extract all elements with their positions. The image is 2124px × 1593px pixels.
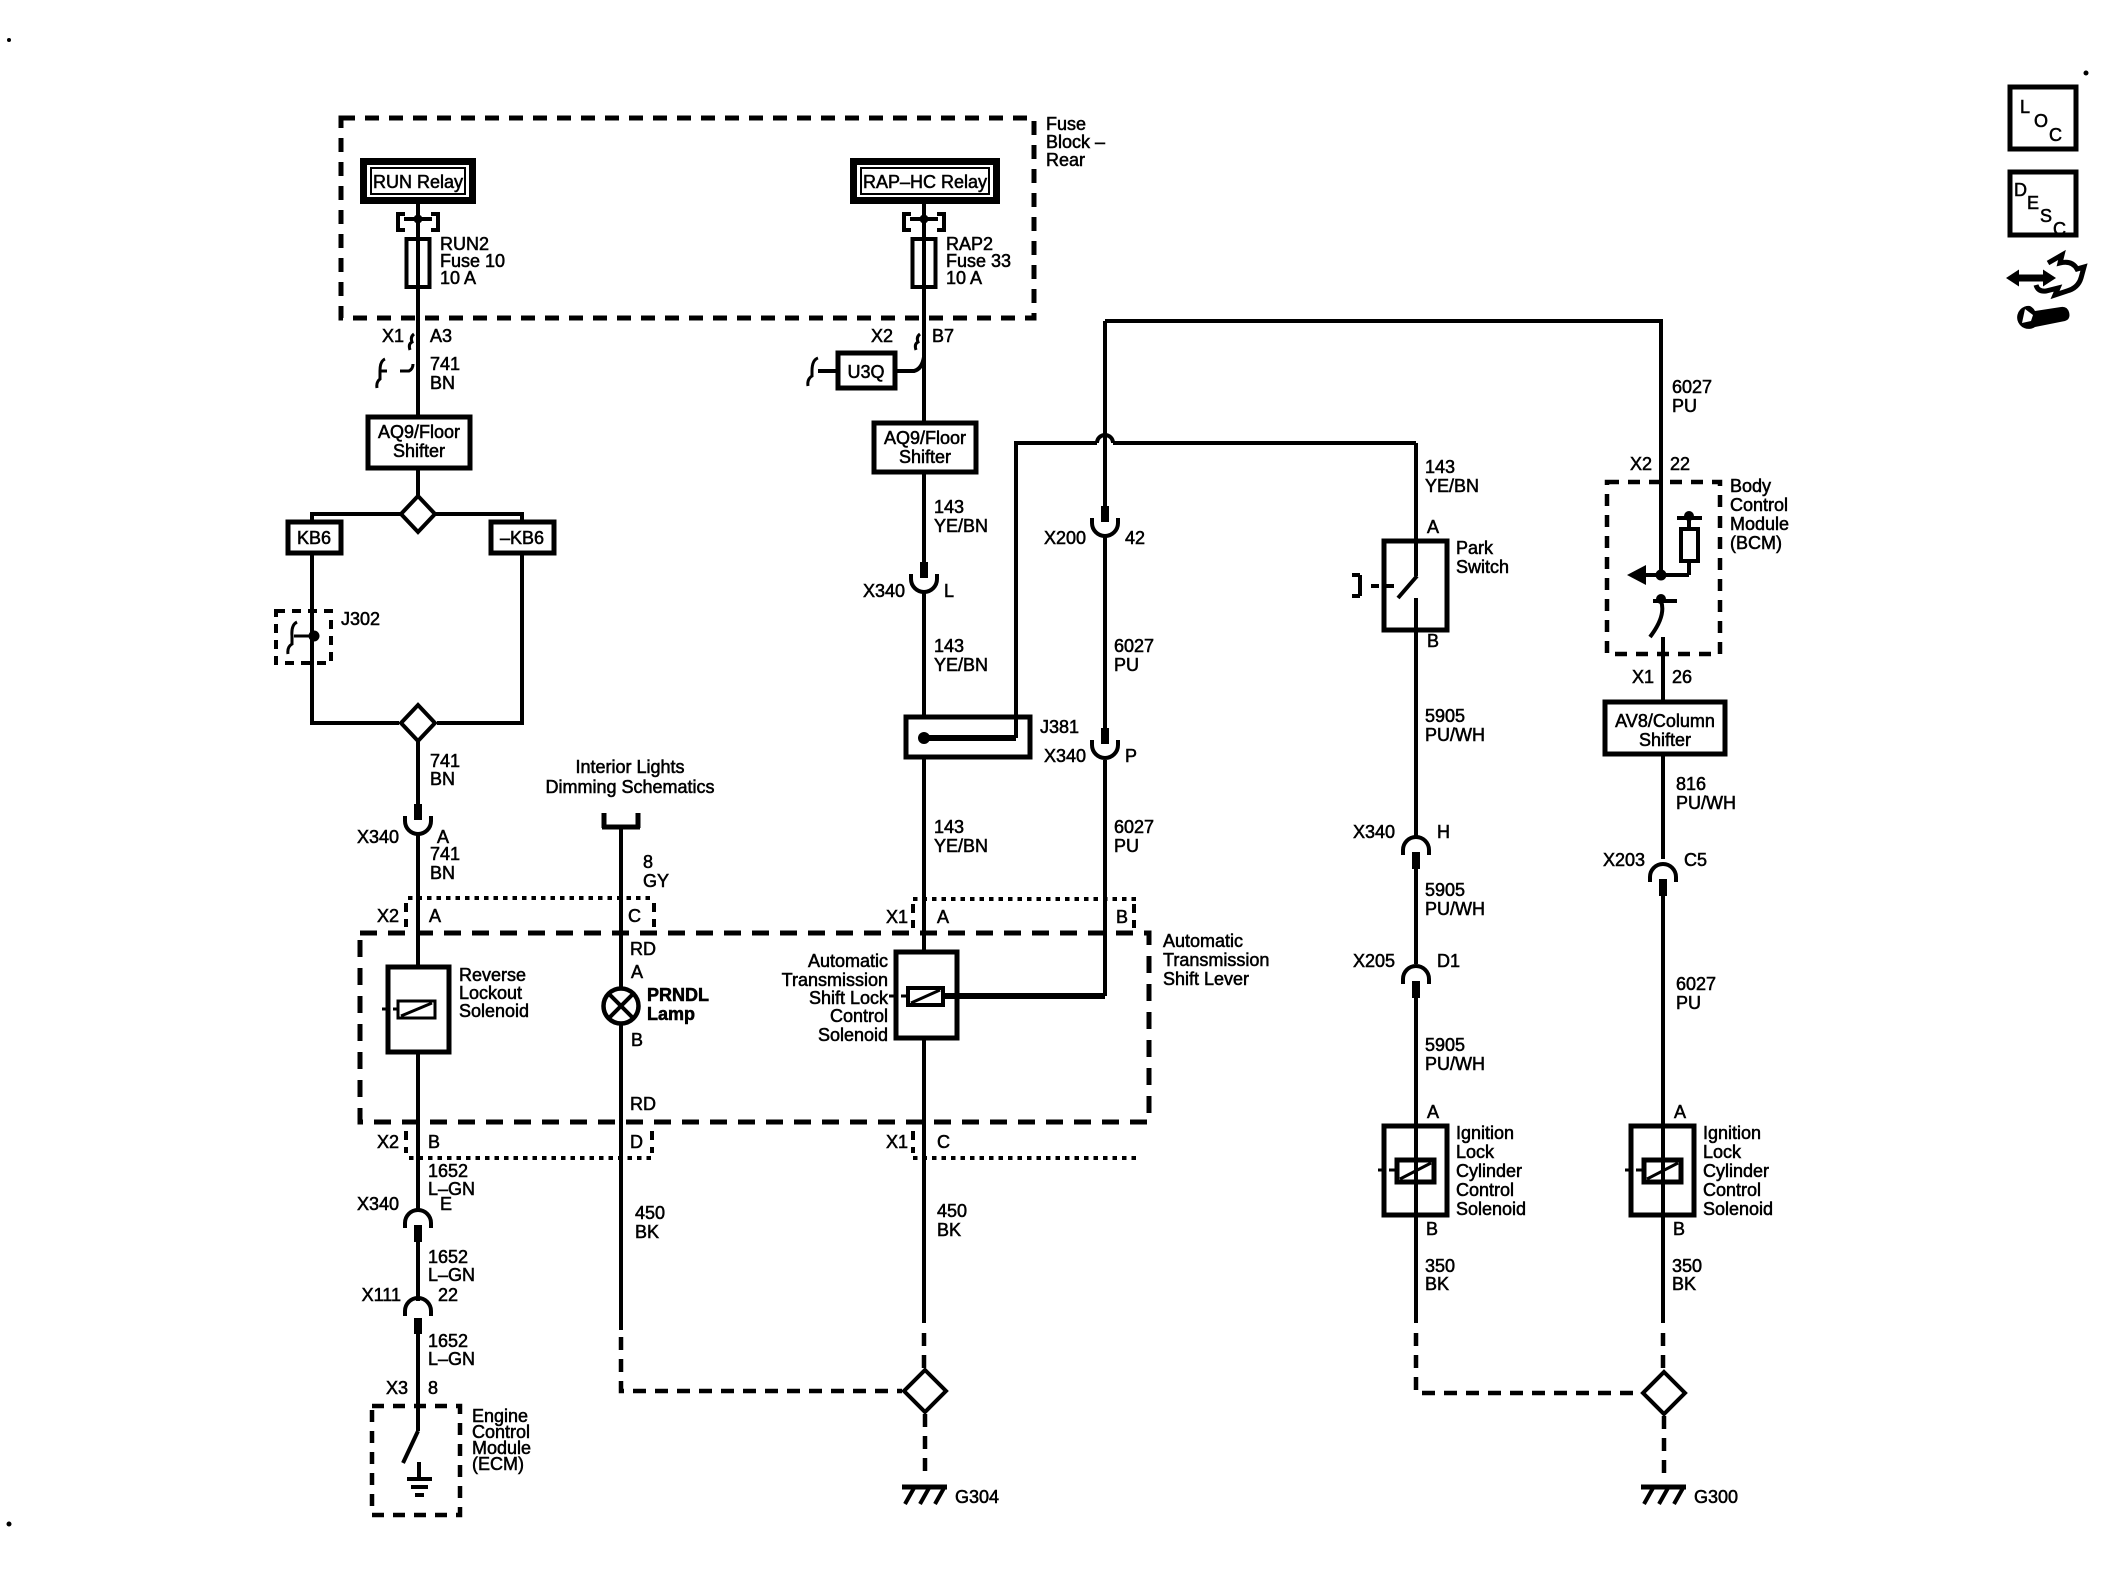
wire park feed down	[1414, 443, 1418, 541]
inline connector X340 E	[357, 1194, 452, 1242]
label Automatic Transmission Shift Lever	[1163, 931, 1269, 989]
wire label 450 BK	[937, 1201, 967, 1240]
connector block AQ9/Floor Shifter (left)	[368, 417, 470, 468]
svg-text:X2: X2	[1630, 454, 1652, 474]
dashed wire to G304 diamond	[621, 1337, 902, 1391]
connector X2 B7 labels	[871, 326, 954, 350]
svg-text:YE/BN: YE/BN	[934, 516, 988, 536]
wire label 6027 PU (top right)	[1672, 377, 1712, 416]
svg-text:350: 350	[1425, 1256, 1455, 1276]
wire label 1652 L-GN	[428, 1161, 475, 1199]
wire label 143 YE/BN	[934, 497, 988, 536]
svg-text:BN: BN	[430, 373, 455, 393]
svg-text:BN: BN	[430, 769, 455, 789]
svg-text:D1: D1	[1437, 951, 1460, 971]
svg-text:42: 42	[1125, 528, 1145, 548]
svg-text:C: C	[2053, 219, 2066, 239]
svg-text:X1: X1	[886, 907, 908, 927]
svg-text:Control: Control	[830, 1006, 888, 1026]
svg-text:816: 816	[1676, 774, 1706, 794]
svg-text:L–GN: L–GN	[428, 1349, 475, 1369]
svg-text:Shift Lever: Shift Lever	[1163, 969, 1249, 989]
svg-text:741: 741	[430, 751, 460, 771]
label Engine Control Module (ECM)	[472, 1406, 531, 1474]
automatic transmission shift lever dashed boundary	[360, 933, 1149, 1122]
svg-text:E: E	[2027, 193, 2039, 213]
wire label 350 BK	[1672, 1256, 1702, 1294]
wire X340E to X111	[416, 1242, 420, 1301]
svg-text:Lock: Lock	[1456, 1142, 1495, 1162]
wire label 1652 L-GN	[428, 1331, 475, 1369]
svg-text:B: B	[1116, 907, 1128, 927]
svg-text:Cylinder: Cylinder	[1703, 1161, 1769, 1181]
wire label 143 YE/BN (park feed)	[1425, 457, 1479, 496]
svg-text:Rear: Rear	[1046, 150, 1085, 170]
svg-text:PU/WH: PU/WH	[1676, 793, 1736, 813]
svg-text:A: A	[937, 907, 949, 927]
svg-text:Fuse: Fuse	[1046, 114, 1086, 134]
wire label 816 PU/WH	[1676, 774, 1736, 813]
reverse lockout solenoid	[382, 965, 529, 1052]
wire X340L to J381	[922, 592, 926, 717]
lamp PRNDL	[604, 985, 710, 1024]
tiny mark bottom left	[7, 1522, 12, 1527]
svg-text:6027: 6027	[1114, 636, 1154, 656]
BCM internal resistor and driver	[1627, 511, 1702, 585]
svg-text:PU: PU	[1676, 993, 1701, 1013]
wire KB6 down through J302	[312, 553, 399, 723]
wire label 5905 PU/WH	[1425, 880, 1485, 919]
svg-text:Control: Control	[1730, 495, 1788, 515]
svg-text:X1: X1	[886, 1132, 908, 1152]
connector X1 band C row	[886, 1131, 1136, 1158]
connector block AQ9/Floor Shifter (middle)	[874, 423, 976, 472]
LOC reference box	[2010, 87, 2076, 149]
svg-text:143: 143	[1425, 457, 1455, 477]
svg-text:Solenoid: Solenoid	[1456, 1199, 1526, 1219]
svg-text:X203: X203	[1603, 850, 1645, 870]
wire 6027 PU feed from top corner	[1103, 321, 1107, 506]
svg-text:1652: 1652	[428, 1331, 468, 1351]
wire X200 to X340 P	[1103, 536, 1107, 730]
svg-text:PU: PU	[1114, 836, 1139, 856]
ignition lock cylinder control solenoid (right)	[1625, 1123, 1773, 1219]
svg-text:Ignition: Ignition	[1703, 1123, 1761, 1143]
wire RAP relay to AQ9	[922, 202, 926, 423]
svg-text:PU: PU	[1672, 396, 1697, 416]
ignition lock cylinder control solenoid (left)	[1378, 1123, 1526, 1219]
connector X1 A3 labels	[382, 326, 452, 350]
inline connector X340 A	[357, 804, 449, 847]
wire AV8 down to X203	[1661, 754, 1665, 859]
svg-text:Transmission: Transmission	[1163, 950, 1269, 970]
svg-text:450: 450	[937, 1201, 967, 1221]
wire label 8 GY	[643, 852, 669, 891]
svg-text:Shifter: Shifter	[899, 447, 951, 467]
svg-text:X3: X3	[386, 1378, 408, 1398]
wire J381 to shift lock solenoid	[922, 757, 926, 952]
svg-text:AQ9/Floor: AQ9/Floor	[378, 422, 460, 442]
svg-text:C: C	[937, 1132, 950, 1152]
svg-text:BK: BK	[1672, 1274, 1696, 1294]
svg-text:B: B	[1427, 631, 1439, 651]
svg-text:5905: 5905	[1425, 1035, 1465, 1055]
svg-text:143: 143	[934, 636, 964, 656]
relay K RAP-HC Relay box	[854, 162, 997, 201]
svg-text:L: L	[944, 581, 954, 601]
svg-text:1652: 1652	[428, 1247, 468, 1267]
connector X3 8 labels	[386, 1378, 438, 1398]
svg-text:6027: 6027	[1672, 377, 1712, 397]
wire label 143 YE/BN	[934, 636, 988, 675]
svg-text:Control: Control	[1456, 1180, 1514, 1200]
wire PRNDL lamp circuit	[619, 828, 623, 988]
svg-text:X1: X1	[382, 326, 404, 346]
svg-text:A3: A3	[430, 326, 452, 346]
svg-text:Control: Control	[1703, 1180, 1761, 1200]
wire label 6027 PU	[1114, 817, 1154, 856]
splice J302 dashed box	[276, 609, 380, 663]
dashed wire diamond to ground	[1662, 1416, 1667, 1477]
wire RUN relay to AQ9	[416, 202, 420, 417]
wire X111 to ECM	[416, 1332, 420, 1431]
svg-text:6027: 6027	[1676, 974, 1716, 994]
svg-text:BN: BN	[430, 863, 455, 883]
svg-text:S: S	[2040, 206, 2052, 226]
svg-text:PU: PU	[1114, 655, 1139, 675]
wire solenoid down	[1414, 1215, 1418, 1323]
svg-text:AV8/Column: AV8/Column	[1615, 711, 1715, 731]
svg-text:–KB6: –KB6	[500, 528, 544, 548]
junction block J381	[906, 717, 1079, 757]
svg-text:P: P	[1125, 746, 1137, 766]
svg-text:Module: Module	[1730, 514, 1789, 534]
connector X1 band A B row	[886, 899, 1136, 928]
wire label 1652 L-GN	[428, 1247, 475, 1285]
svg-text:PU/WH: PU/WH	[1425, 1054, 1485, 1074]
svg-text:X340: X340	[357, 827, 399, 847]
svg-text:C: C	[628, 906, 641, 926]
wire label 350 BK	[1425, 1256, 1455, 1294]
wire X205 to ignition solenoid	[1414, 998, 1418, 1126]
svg-text:RD: RD	[630, 939, 656, 959]
wire solenoid to riser	[941, 993, 1105, 999]
wire label 5905 PU/WH	[1425, 1035, 1485, 1074]
svg-text:741: 741	[430, 354, 460, 374]
svg-text:BK: BK	[1425, 1274, 1449, 1294]
svg-text:450: 450	[635, 1203, 665, 1223]
body control module dashed box	[1607, 482, 1720, 654]
inline connector X340 H	[1353, 822, 1450, 869]
svg-text:X340: X340	[1044, 746, 1086, 766]
inline connector X205 D1	[1353, 951, 1460, 998]
svg-text:Cylinder: Cylinder	[1456, 1161, 1522, 1181]
connector bracket under RUN relay	[398, 214, 438, 230]
ground G300	[1641, 1487, 1738, 1507]
fuse block - rear dashed boundary	[341, 118, 1034, 318]
svg-text:B: B	[1426, 1219, 1438, 1239]
svg-text:L: L	[2020, 97, 2030, 117]
inline connector X340 P	[1044, 728, 1137, 766]
svg-text:X2: X2	[377, 1132, 399, 1152]
svg-text:Body: Body	[1730, 476, 1771, 496]
svg-text:C5: C5	[1684, 850, 1707, 870]
wire X340H to X205	[1414, 869, 1418, 964]
svg-text:Interior Lights: Interior Lights	[575, 757, 684, 777]
wire ring left branch to KB6	[312, 514, 401, 522]
inline connector X340 L	[863, 562, 954, 601]
svg-text:Lamp: Lamp	[647, 1004, 695, 1024]
svg-text:Automatic: Automatic	[808, 951, 888, 971]
svg-text:1652: 1652	[428, 1161, 468, 1181]
tiny mark top left	[7, 38, 11, 42]
splice diamond G300	[1643, 1372, 1685, 1414]
svg-text:B: B	[1673, 1219, 1685, 1239]
svg-text:YE/BN: YE/BN	[1425, 476, 1479, 496]
svg-text:O: O	[2034, 111, 2048, 131]
dashed wire to G300	[1416, 1333, 1642, 1393]
park switch	[1352, 538, 1509, 630]
svg-text:6027: 6027	[1114, 817, 1154, 837]
interior lights dimming schematics reference	[545, 757, 714, 828]
wire label 6027 PU	[1114, 636, 1154, 675]
svg-text:Lock: Lock	[1703, 1142, 1742, 1162]
svg-text:Park: Park	[1456, 538, 1494, 558]
svg-text:10 A: 10 A	[946, 268, 982, 288]
relay K RUN Relay box	[364, 162, 473, 201]
wire park switch to X340 H	[1414, 630, 1418, 837]
svg-text:143: 143	[934, 817, 964, 837]
svg-text:YE/BN: YE/BN	[934, 655, 988, 675]
wire J381 riser to park switch feed	[1016, 435, 1416, 738]
svg-text:(ECM): (ECM)	[472, 1454, 524, 1474]
svg-text:X200: X200	[1044, 528, 1086, 548]
svg-text:22: 22	[438, 1285, 458, 1305]
svg-text:A: A	[1674, 1102, 1686, 1122]
svg-text:G300: G300	[1694, 1487, 1738, 1507]
wire ring right branch to -KB6	[435, 514, 522, 522]
DESC reference box	[2010, 172, 2076, 239]
wire X203 to ignition solenoid right	[1661, 896, 1665, 1126]
svg-text:J302: J302	[341, 609, 380, 629]
svg-text:A: A	[1427, 1102, 1439, 1122]
svg-text:PRNDL: PRNDL	[647, 985, 709, 1005]
svg-text:U3Q: U3Q	[847, 362, 884, 382]
wire solenoid down to X340 E	[416, 1052, 420, 1210]
inline connector X200 42	[1044, 506, 1145, 548]
svg-text:5905: 5905	[1425, 880, 1465, 900]
svg-text:RD: RD	[630, 1094, 656, 1114]
svg-text:X2: X2	[377, 906, 399, 926]
svg-text:Solenoid: Solenoid	[459, 1001, 529, 1021]
wire -KB6 down	[437, 553, 522, 723]
svg-text:Reverse: Reverse	[459, 965, 526, 985]
svg-text:Shifter: Shifter	[393, 441, 445, 461]
svg-text:Solenoid: Solenoid	[1703, 1199, 1773, 1219]
svg-text:GY: GY	[643, 871, 669, 891]
wire top feed 6027 PU horizontal	[1105, 321, 1661, 575]
splice diamond G304	[904, 1370, 946, 1412]
dashed wire to G304	[922, 1333, 927, 1368]
wire label 450 BK	[635, 1203, 665, 1242]
svg-text:143: 143	[934, 497, 964, 517]
connector X2 band A C row	[377, 898, 654, 927]
wire diamond to X340 A	[416, 741, 420, 806]
svg-text:5905: 5905	[1425, 706, 1465, 726]
svg-text:YE/BN: YE/BN	[934, 836, 988, 856]
svg-text:X205: X205	[1353, 951, 1395, 971]
svg-text:Shift Lock: Shift Lock	[809, 988, 889, 1008]
svg-text:A: A	[631, 962, 643, 982]
ground G304	[902, 1487, 999, 1507]
inline connector X203 C5	[1603, 850, 1707, 896]
svg-text:L–GN: L–GN	[428, 1265, 475, 1285]
dashed wire diamond to ground	[923, 1414, 928, 1477]
svg-text:D: D	[2014, 180, 2027, 200]
dashed wire to G300 diamond	[1661, 1333, 1666, 1370]
svg-text:350: 350	[1672, 1256, 1702, 1276]
svg-text:8: 8	[643, 852, 653, 872]
connector X1 26 labels (BCM)	[1632, 667, 1692, 687]
svg-text:B7: B7	[932, 326, 954, 346]
svg-text:E: E	[440, 1194, 452, 1214]
svg-text:X340: X340	[357, 1194, 399, 1214]
ECM internal ground	[407, 1462, 432, 1495]
svg-text:Dimming Schematics: Dimming Schematics	[545, 777, 714, 797]
splice diamond upper	[401, 496, 435, 532]
wire X340P into shift lever assembly	[1103, 760, 1107, 996]
svg-text:X340: X340	[1353, 822, 1395, 842]
wiring icon arrows and wrench	[2006, 255, 2084, 329]
automatic transmission shift lock control solenoid	[782, 951, 957, 1045]
ECM internal switch blade	[403, 1431, 418, 1463]
svg-text:X2: X2	[871, 326, 893, 346]
option box -KB6	[491, 522, 554, 553]
wire X340A to solenoid	[416, 834, 420, 967]
svg-text:Solenoid: Solenoid	[818, 1025, 888, 1045]
wire label 5905 PU/WH	[1425, 706, 1485, 745]
svg-text:RAP–HC Relay: RAP–HC Relay	[863, 172, 987, 192]
svg-text:C: C	[2049, 125, 2062, 145]
option box KB6	[288, 522, 341, 553]
connector X2 22 labels (BCM)	[1630, 454, 1690, 474]
svg-text:(BCM): (BCM)	[1730, 533, 1782, 553]
connector bracket under RAP relay	[904, 214, 944, 230]
svg-text:X111: X111	[362, 1285, 401, 1305]
label Body Control Module (BCM)	[1730, 476, 1789, 553]
svg-text:J381: J381	[1040, 717, 1079, 737]
wire label 741 BN	[430, 844, 460, 883]
svg-text:KB6: KB6	[297, 528, 331, 548]
wire label 741 BN	[430, 354, 460, 393]
splice diamond lower	[401, 705, 435, 741]
svg-text:A: A	[1427, 517, 1439, 537]
fuse RAP2 Fuse 33 10A	[913, 234, 1012, 288]
svg-text:D: D	[630, 1132, 643, 1152]
wire label 6027 PU	[1676, 974, 1716, 1013]
tiny mark top right	[2084, 71, 2089, 76]
inline harness option hooks left of X1 wire	[377, 359, 413, 388]
svg-text:22: 22	[1670, 454, 1690, 474]
svg-text:Transmission: Transmission	[782, 970, 888, 990]
svg-text:B: B	[428, 1132, 440, 1152]
svg-text:741: 741	[430, 844, 460, 864]
wire solenoid down to X1 C	[922, 1038, 926, 1323]
svg-text:G304: G304	[955, 1487, 999, 1507]
svg-text:PU/WH: PU/WH	[1425, 899, 1485, 919]
svg-text:10 A: 10 A	[440, 268, 476, 288]
BCM internal switch	[1650, 594, 1677, 702]
connector block AV8/Column Shifter	[1605, 702, 1725, 754]
svg-text:X1: X1	[1632, 667, 1654, 687]
svg-text:Switch: Switch	[1456, 557, 1509, 577]
svg-text:Automatic: Automatic	[1163, 931, 1243, 951]
engine control module dashed box	[372, 1406, 460, 1515]
svg-text:A: A	[429, 906, 441, 926]
svg-text:PU/WH: PU/WH	[1425, 725, 1485, 745]
wire label 741 BN	[430, 751, 460, 789]
inline connector X111 22	[362, 1285, 458, 1334]
splice option U3Q	[808, 349, 924, 388]
svg-text:Lockout: Lockout	[459, 983, 522, 1003]
svg-text:26: 26	[1672, 667, 1692, 687]
wire lamp down	[619, 1024, 623, 1330]
label Fuse Block - Rear	[1046, 114, 1105, 170]
svg-text:RUN Relay: RUN Relay	[373, 172, 463, 192]
svg-text:AQ9/Floor: AQ9/Floor	[884, 428, 966, 448]
svg-text:B: B	[631, 1030, 643, 1050]
wire label 143 YE/BN	[934, 817, 988, 856]
svg-text:BK: BK	[635, 1222, 659, 1242]
svg-text:Ignition: Ignition	[1456, 1123, 1514, 1143]
svg-text:8: 8	[428, 1378, 438, 1398]
svg-text:Shifter: Shifter	[1639, 730, 1691, 750]
wire solenoid down	[1661, 1215, 1665, 1323]
svg-text:Block –: Block –	[1046, 132, 1105, 152]
svg-text:BK: BK	[937, 1220, 961, 1240]
svg-text:X340: X340	[863, 581, 905, 601]
connector X2 band B D row	[377, 1131, 654, 1158]
svg-text:H: H	[1437, 822, 1450, 842]
fuse RUN2 Fuse 10 10A	[407, 234, 506, 288]
wire AQ9 to X340 L	[922, 472, 926, 562]
wire AQ9 to splice diamond	[416, 468, 420, 498]
